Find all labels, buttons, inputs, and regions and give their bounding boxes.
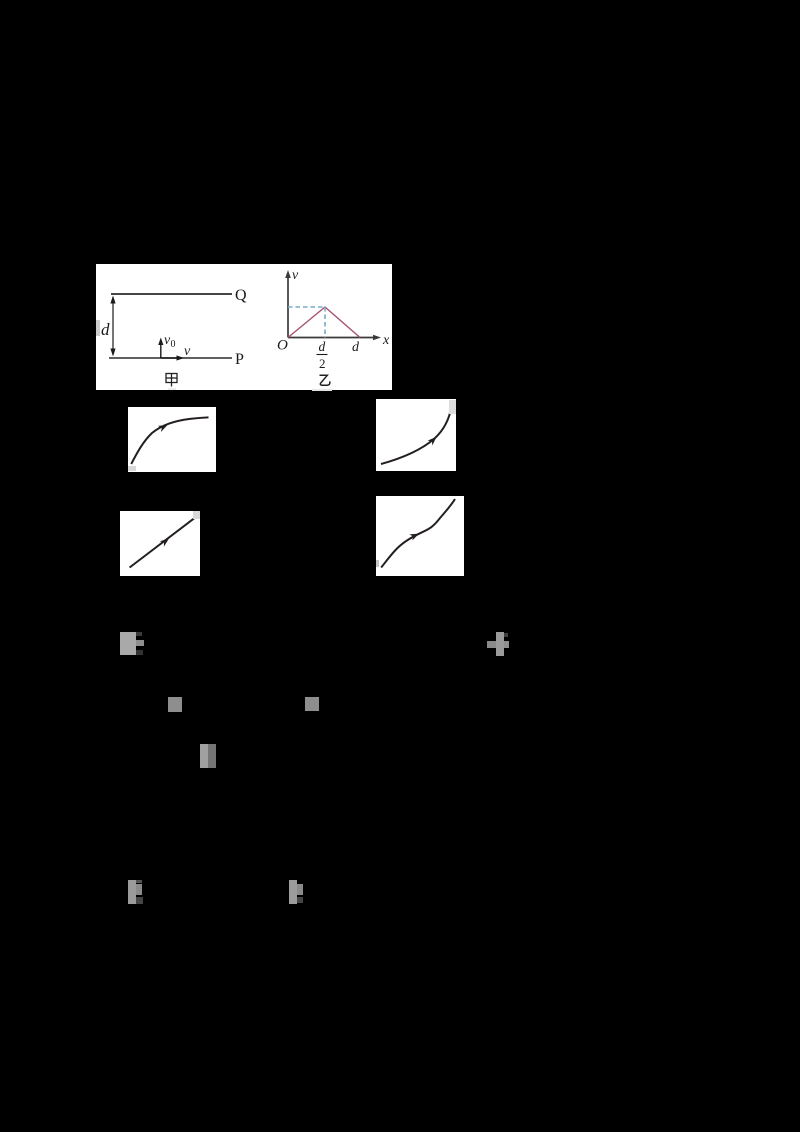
dimension arrow d (double headed) (110, 296, 115, 357)
formula blob 5 (row 3) (200, 744, 208, 768)
svg-text:d: d (352, 340, 360, 355)
option graph C panel (120, 511, 200, 576)
arrowhead C (160, 536, 171, 547)
artifact smudge below caption 乙 (312, 389, 332, 391)
formula blob 4 (row 2 right) (305, 697, 319, 711)
label v (184, 344, 191, 359)
tick label d/2 fraction (317, 339, 328, 371)
caption 乙 (drawn glyph) (320, 375, 330, 385)
label d (101, 320, 110, 339)
formula blob 2 (row 1 right, plus shaped) (496, 632, 504, 656)
graph x-axis (288, 335, 381, 341)
dashed guide horizontal (288, 306, 325, 308)
formula blob 7 (row 4 right) (289, 880, 297, 904)
arrowhead D (409, 531, 420, 541)
axis label x (382, 333, 390, 348)
svg-text:0: 0 (171, 339, 176, 350)
label P (235, 351, 244, 368)
artifact smudge top-right of panel C (193, 511, 200, 519)
graph y-axis v (285, 270, 291, 338)
artifact smudge top-right of panel B (449, 400, 456, 414)
artifact smudge below caption 甲 (168, 388, 176, 390)
velocity arrow v0 (vertical) (158, 338, 163, 359)
dashed guide vertical (324, 307, 326, 338)
svg-text:d: d (319, 339, 326, 354)
svg-text:Q: Q (235, 287, 247, 304)
svg-text:O: O (277, 338, 288, 354)
label v0 (164, 333, 176, 350)
svg-text:x: x (382, 333, 390, 348)
origin label O (277, 338, 288, 354)
option graph A panel (128, 407, 216, 472)
label Q (235, 287, 247, 304)
artifact smudge left of figure box (96, 320, 100, 336)
line C (straight) (130, 518, 195, 568)
svg-text:v: v (292, 268, 299, 283)
svg-text:v: v (184, 344, 191, 359)
svg-text:P: P (235, 351, 244, 368)
formula blob 3 (row 2 left) (168, 697, 182, 712)
svg-text:d: d (101, 320, 110, 339)
curve B (accelerating) (381, 406, 452, 464)
v-x triangle (red) (288, 307, 360, 338)
figure 甲/乙 white panel (96, 264, 392, 390)
arrowhead A (158, 422, 169, 432)
axis label v (292, 268, 299, 283)
curve D (s-shaped) (381, 499, 455, 568)
curve A (saturating) (131, 417, 208, 464)
caption 甲 (drawn glyph) (166, 374, 177, 387)
plate line P (109, 357, 232, 359)
svg-text:2: 2 (319, 356, 326, 371)
option graph D panel (376, 496, 464, 576)
velocity arrow v (horizontal on P) (161, 355, 184, 360)
formula blob 6 (row 4 left) (128, 880, 136, 904)
artifact smudge left edge of panel D (376, 560, 379, 567)
formula blob 1 (row 1 left) (120, 632, 136, 655)
artifact smudge bottom-left of panel A (128, 466, 136, 471)
plate line Q (111, 293, 232, 295)
tick label d (352, 340, 360, 355)
option graph B panel (376, 399, 456, 471)
arrowhead B (428, 434, 439, 445)
